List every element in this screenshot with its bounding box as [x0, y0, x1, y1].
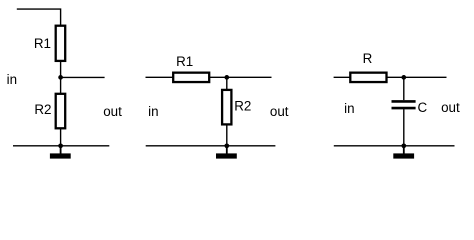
wire R1 to out (middle) — [209, 76, 271, 78]
node junction dot on rail — [58, 143, 63, 148]
node junction dot (right top) — [401, 75, 406, 80]
wire junction down to capacitor — [403, 77, 405, 100]
wire bottom rail (left) — [13, 145, 109, 147]
svg-text:R2: R2 — [234, 99, 251, 114]
svg-text:R: R — [363, 51, 373, 66]
svg-text:C: C — [418, 100, 428, 115]
wire R2 bottom to rail — [60, 128, 62, 146]
capacitor C (two plates) — [392, 101, 416, 108]
svg-text:out: out — [103, 104, 122, 119]
wire R2 bottom to rail (middle) — [226, 124, 228, 145]
wire middle node to out — [61, 76, 105, 78]
svg-text:out: out — [270, 104, 289, 119]
wire R1 bottom to R2 top — [60, 61, 62, 94]
ground (middle) — [216, 146, 237, 159]
node junction dot (mid divider) — [58, 75, 63, 80]
svg-text:in: in — [148, 104, 158, 119]
wire capacitor bottom to rail — [403, 109, 405, 146]
resistor R1 (left, vertical) — [56, 26, 65, 61]
svg-text:out: out — [441, 100, 460, 115]
wire bottom rail (right) — [334, 145, 455, 147]
node junction dot on rail (right) — [401, 143, 406, 148]
svg-text:in: in — [344, 101, 354, 116]
wire input left (middle) — [146, 76, 174, 78]
ground (right) — [393, 146, 414, 159]
svg-text:R1: R1 — [176, 54, 193, 69]
wire R to out (right) — [387, 76, 447, 78]
resistor R1 (middle, horizontal) — [173, 73, 209, 82]
node junction dot (middle top) — [224, 75, 229, 80]
ground (left) — [50, 146, 71, 159]
resistor R2 (left, vertical) — [56, 94, 65, 129]
svg-text:in: in — [7, 72, 17, 87]
wire top input (horizontal + corner down to R1) — [17, 9, 61, 26]
node junction dot on rail (middle) — [224, 143, 229, 148]
wire junction down to R2 (middle) — [226, 77, 228, 90]
wire bottom rail (middle) — [146, 145, 276, 147]
svg-text:R2: R2 — [34, 102, 51, 117]
svg-text:R1: R1 — [34, 36, 51, 51]
resistor R2 (middle, vertical) — [222, 90, 231, 125]
resistor R (right, horizontal) — [350, 73, 386, 82]
wire input left (right circuit) — [334, 76, 351, 78]
